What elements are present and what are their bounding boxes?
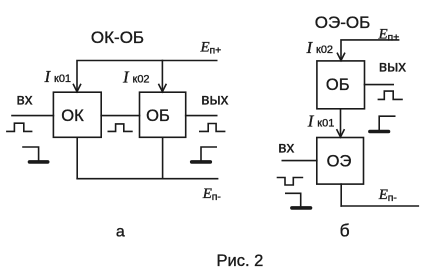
label: title OK-OB	[91, 28, 144, 47]
pulse symbol: intermediate waveform	[108, 124, 132, 131]
svg-text:п-: п-	[212, 191, 222, 203]
node Ep- (right)	[378, 187, 398, 204]
svg-text:к01: к01	[317, 118, 334, 130]
wire: Ep- rail (right circuit)	[341, 205, 418, 207]
label I_k01 (right)	[307, 112, 335, 131]
wire: input to OK	[12, 115, 53, 117]
block OB U2	[140, 92, 186, 137]
pulse symbol: output waveform (right)	[378, 91, 402, 99]
wire: OB bottom to Ep- rail	[162, 137, 164, 178]
label vx (input, left)	[17, 91, 33, 108]
svg-text:Рис. 2: Рис. 2	[217, 252, 264, 270]
svg-text:Е: Е	[202, 186, 212, 202]
label I_k02 (right)	[306, 38, 334, 57]
svg-text:п+: п+	[388, 31, 400, 43]
wire: OB output	[186, 115, 217, 117]
pulse symbol: output waveform (left)	[200, 124, 225, 132]
svg-text:вых: вых	[379, 58, 406, 75]
node Ep- (left)	[202, 186, 222, 203]
block OB U3	[317, 61, 365, 109]
svg-text:к02: к02	[133, 74, 150, 86]
wire: Ep+ supply rail (left circuit) with drop to OK	[77, 61, 217, 92]
svg-text:Е: Е	[378, 187, 388, 203]
svg-text:ОЭ: ОЭ	[327, 153, 352, 171]
block OK U1	[53, 92, 101, 137]
ground (output load, right)	[370, 116, 395, 131]
wire: OE bottom to Ep- rail (right)	[340, 184, 342, 206]
wire: Ep+ rail (right circuit) with drop to OB	[341, 40, 399, 60]
pulse symbol: input waveform (left)	[7, 123, 32, 131]
label vyx (output, left)	[201, 91, 228, 108]
arrowhead: Ik02 into OB (right)	[337, 53, 344, 60]
svg-text:а: а	[116, 224, 125, 241]
ground (input source, left)	[23, 147, 48, 162]
svg-text:п+: п+	[210, 45, 222, 57]
label I_k02	[122, 68, 150, 87]
wire: OB to OE (Ik01, right)	[340, 109, 342, 136]
svg-text:б: б	[340, 221, 350, 241]
svg-text:вх: вх	[278, 139, 294, 156]
wire: drop from rail to OB (Ik02)	[161, 61, 163, 92]
svg-text:ОБ: ОБ	[146, 107, 170, 125]
label vyx (output, right)	[379, 58, 406, 75]
arrowhead: Ik02 into OB	[159, 85, 166, 92]
label b (subfigure)	[340, 221, 350, 241]
svg-text:вх: вх	[17, 91, 33, 108]
svg-text:ОЭ-ОБ: ОЭ-ОБ	[315, 13, 370, 32]
label a (subfigure)	[116, 224, 125, 241]
svg-text:к02: к02	[316, 44, 333, 56]
svg-text:к01: к01	[54, 73, 71, 85]
caption Ris. 2	[217, 252, 264, 270]
node Ep+ (left)	[200, 40, 222, 57]
wire: OK bottom to Ep- rail	[76, 137, 78, 178]
svg-text:ОК: ОК	[61, 107, 84, 125]
wire: OK output to OB input	[101, 115, 139, 117]
svg-text:Е: Е	[200, 40, 210, 56]
wire: Ep- supply rail (left circuit)	[77, 178, 217, 180]
svg-text:ОБ: ОБ	[326, 76, 350, 94]
wire: input to OE	[282, 160, 317, 162]
node Ep+ (right)	[378, 26, 400, 43]
wire: OB output (right)	[365, 84, 394, 86]
ground (input source, right)	[286, 193, 311, 208]
label vx (input, right)	[278, 139, 294, 156]
arrowhead: Ik01 into OE	[337, 130, 344, 137]
ground (output load, left)	[192, 147, 217, 162]
svg-text:ОК-ОБ: ОК-ОБ	[91, 28, 144, 47]
label: title OE-OB	[315, 13, 370, 32]
arrowhead: Ik01 into OK	[73, 85, 80, 92]
label I_k01	[44, 67, 72, 86]
svg-text:п-: п-	[388, 192, 398, 204]
block OE U4	[317, 138, 364, 185]
svg-text:вых: вых	[201, 91, 228, 108]
pulse symbol: input waveform (right, negative)	[278, 178, 303, 186]
